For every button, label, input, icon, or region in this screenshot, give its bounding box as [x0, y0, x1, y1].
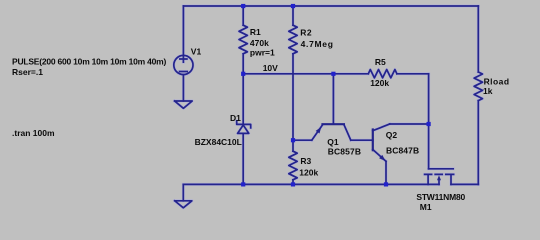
Q1 emitter arrow (PNP, points toward bar) — [316, 127, 322, 134]
node R3 bottom on ground rail — [291, 182, 295, 186]
svg-text:M1: M1 — [420, 202, 432, 212]
svg-text:BC857B: BC857B — [328, 147, 362, 157]
node R2 top — [291, 4, 295, 8]
svg-text:R5: R5 — [375, 57, 386, 67]
svg-text:1k: 1k — [483, 86, 493, 96]
svg-text:10V: 10V — [263, 63, 278, 73]
svg-text:Rser=.1: Rser=.1 — [12, 67, 43, 77]
node Q2 emitter on ground rail — [384, 182, 388, 186]
svg-text:STW11NM80: STW11NM80 — [416, 192, 465, 202]
svg-text:120k: 120k — [299, 167, 318, 177]
Q2 emitter arrow (NPN, points outward) — [379, 155, 385, 161]
svg-text:BC847B: BC847B — [386, 145, 419, 155]
node D1 anode on ground rail — [241, 182, 245, 186]
svg-text:R1: R1 — [250, 27, 261, 37]
svg-text:.tran 100m: .tran 100m — [12, 128, 55, 138]
node divider R2/R3/Q1 — [291, 138, 295, 142]
svg-text:120k: 120k — [370, 78, 389, 88]
svg-text:PULSE(200 600 10m 10m 10m 10m: PULSE(200 600 10m 10m 10m 10m 40m) — [12, 56, 167, 66]
svg-text:BZX84C10L: BZX84C10L — [195, 137, 242, 147]
svg-text:Q2: Q2 — [386, 130, 398, 140]
svg-text:V1: V1 — [191, 47, 202, 57]
M1 body arrow (points up to channel) — [437, 175, 441, 180]
transistor Q1 base bar — [321, 123, 345, 125]
svg-text:R2: R2 — [300, 27, 312, 37]
svg-text:Q1: Q1 — [327, 137, 339, 147]
svg-text:pwr=1: pwr=1 — [250, 48, 275, 58]
node gate R5/Q2/M1 — [427, 122, 431, 126]
svg-text:470k: 470k — [250, 38, 269, 48]
transistor Q2 base bar — [372, 128, 374, 151]
node R1 top — [241, 4, 245, 8]
svg-text:R3: R3 — [300, 156, 311, 166]
node Q1 base tap on 10V rail — [331, 72, 335, 76]
svg-text:4.7Meg: 4.7Meg — [301, 39, 334, 49]
node 10V at R1 bottom — [241, 72, 245, 76]
svg-text:D1: D1 — [230, 113, 241, 123]
